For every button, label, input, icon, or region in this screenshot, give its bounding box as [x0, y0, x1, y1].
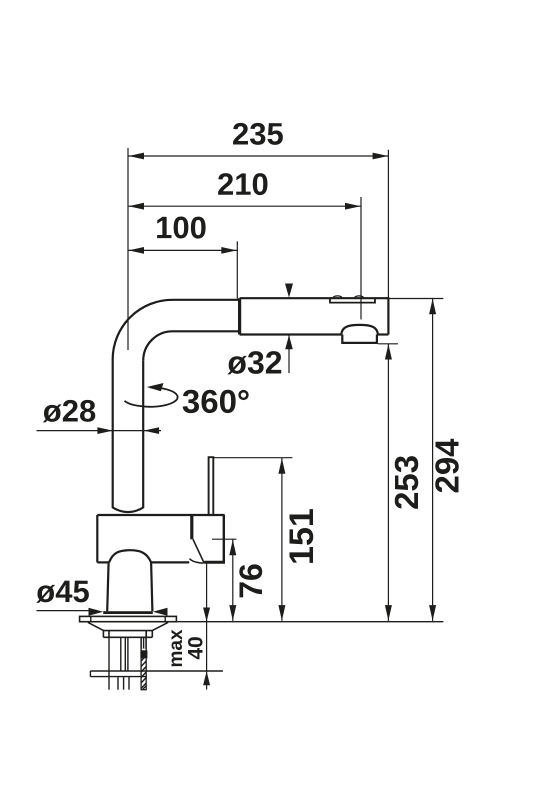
riser tube left edge	[112, 359, 114, 508]
dim o28 line	[37, 430, 162, 432]
body bottom dome over neck	[109, 550, 151, 562]
spray head top edge	[240, 297, 389, 299]
svg-text:235: 235	[232, 116, 284, 151]
svg-text:253: 253	[388, 455, 425, 510]
dim 100 line	[128, 249, 237, 251]
spout inner bend curve	[143, 331, 172, 361]
stud clamp upper block	[140, 638, 146, 649]
escutcheon plate	[80, 616, 177, 621]
mounting bar left end	[89, 671, 91, 677]
svg-text:ø32: ø32	[227, 344, 282, 380]
dim 151 line	[281, 458, 283, 621]
dim o32 upper arrow	[285, 284, 293, 298]
dim o32 lower arrow and tail	[285, 335, 293, 349]
base cap (thick bar)	[103, 611, 153, 614]
hose pipe center	[124, 637, 126, 671]
skirt tab left outer	[102, 631, 104, 638]
svg-text:210: 210	[217, 167, 269, 202]
neck left edge	[107, 562, 108, 611]
spout tube bottom edge	[173, 330, 239, 332]
cartridge joint line (thick)	[190, 515, 193, 539]
spray head bottom edge left segment	[240, 333, 342, 335]
lever rod	[209, 457, 214, 515]
hose below bar 4	[128, 677, 130, 690]
aerator dome	[341, 325, 378, 335]
dim 235 right extension	[387, 150, 389, 298]
mixer body bottom left edge	[97, 561, 109, 563]
dim 100 right extension	[236, 241, 238, 298]
svg-text:40: 40	[185, 636, 208, 659]
spray head right edge	[387, 297, 389, 334]
threaded stud outline	[141, 637, 146, 689]
svg-text:360°: 360°	[182, 383, 250, 420]
stud clamp lower block	[140, 650, 147, 658]
svg-text:ø28: ø28	[43, 393, 96, 428]
spray head top clip plate	[330, 298, 375, 302]
dim 294 extension	[389, 298, 444, 300]
dim 210 line	[128, 205, 361, 207]
hose below bar 2	[117, 677, 119, 690]
skirt tab right outer	[151, 631, 153, 638]
skirt lower flange bottom	[103, 636, 152, 638]
rotation arc 360	[125, 387, 178, 406]
mounting bar top / 40 extension	[90, 670, 223, 672]
dim 235 left extension	[127, 148, 129, 350]
dim 294 line	[432, 299, 434, 621]
dim 151 extension from lever tip	[213, 457, 292, 459]
escutcheon inner right line	[164, 616, 166, 621]
handle housing bottom edge	[204, 561, 225, 564]
skirt tab right inner	[145, 631, 147, 638]
svg-text:294: 294	[429, 438, 466, 494]
neck right edge	[151, 562, 152, 611]
counter deck line	[80, 621, 444, 623]
skirt left slant	[88, 622, 104, 630]
threaded stud hatching	[141, 656, 146, 690]
clip button left bump	[333, 296, 342, 298]
svg-text:151: 151	[283, 508, 321, 565]
spray head joint (thick)	[238, 298, 241, 334]
dim 235 line	[128, 155, 389, 157]
aerator body	[342, 335, 377, 343]
svg-text:100: 100	[155, 210, 207, 245]
dim 253 extension	[378, 343, 398, 345]
dim 76 extension	[212, 538, 237, 540]
dim max40 line	[206, 564, 208, 690]
stud clamp upper stripe 1	[141, 638, 143, 648]
dim 253 line	[387, 344, 389, 621]
lever base fillet curve	[190, 559, 204, 564]
dim 210 right extension	[360, 197, 362, 319]
spout tube top edge	[173, 299, 239, 301]
hose pipe right edge	[127, 637, 129, 671]
mixer body left edge	[96, 515, 98, 562]
spray head bottom edge right segment	[378, 333, 389, 335]
escutcheon inner left line	[90, 616, 92, 621]
svg-text:ø45: ø45	[36, 574, 89, 609]
hose line far left	[108, 637, 110, 689]
hose below bar 3	[123, 677, 125, 690]
svg-text:76: 76	[233, 563, 269, 599]
mounting bar bottom	[90, 676, 146, 678]
mixer body bottom mid edge	[151, 561, 189, 563]
mixer body top edge	[97, 514, 224, 516]
skirt right slant	[152, 622, 168, 630]
dim o45 leader	[37, 610, 91, 612]
skirt lower flange top	[103, 630, 152, 632]
riser tube right edge	[142, 361, 144, 508]
lever base diagonal	[193, 539, 204, 563]
stud clamp upper stripe 2	[144, 638, 146, 648]
handle housing right edge	[223, 515, 225, 564]
skirt tab left inner	[108, 631, 110, 638]
clip button right bump	[354, 296, 363, 298]
spout outer bend curve	[113, 300, 173, 359]
hose pipe left edge	[120, 637, 122, 671]
dim 76 line	[232, 540, 234, 621]
saddle arc where riser meets body	[113, 508, 144, 512]
